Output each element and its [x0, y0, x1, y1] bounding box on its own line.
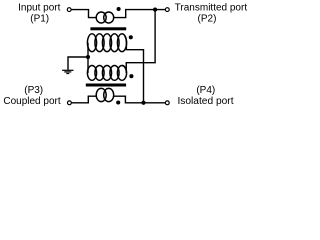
ground [62, 70, 73, 73]
svg-text:(P3): (P3) [24, 85, 43, 96]
port terminal P4 [165, 101, 169, 105]
T2 core bar [86, 84, 126, 87]
port terminal P3 [68, 101, 72, 105]
T1 phase dot secondary [129, 35, 133, 39]
inductor T1 primary (2 loops) [96, 12, 114, 23]
junction node at ground [86, 55, 90, 59]
port terminal P2 [165, 8, 169, 12]
T2 phase dot secondary [116, 100, 120, 104]
wire P1 lead with step down to T1 primary [71, 10, 96, 18]
wire T1 primary exit step up to top line and P2 [114, 10, 166, 18]
wire P3 lead with step up to T2 secondary [71, 96, 97, 103]
wire T2 secondary exit down to bottom line and P4 [114, 96, 165, 103]
svg-text:Coupled port: Coupled port [3, 96, 60, 107]
T1 secondary exit top arc [122, 34, 126, 43]
junction node at P2 branch [153, 8, 157, 12]
wire left vertical through ground junction (T1 sec left to T2 pri left) [87, 43, 89, 73]
wire ground branch [68, 57, 88, 70]
svg-text:Transmitted port: Transmitted port [175, 2, 248, 13]
svg-text:Input port: Input port [18, 2, 60, 13]
T2 primary exit top arc [122, 66, 126, 73]
svg-text:(P1): (P1) [30, 13, 49, 24]
inductor T2 primary (5 loops) [87, 66, 126, 81]
svg-text:(P4): (P4) [196, 85, 215, 96]
inductor T1 secondary (5 loops) [87, 34, 126, 52]
svg-text:Isolated port: Isolated port [177, 96, 233, 107]
inductor T2 secondary (2 loops) [96, 88, 114, 101]
T1 core bar [90, 27, 126, 30]
T1 phase dot primary [117, 7, 121, 11]
wire T1 secondary right end down to bottom line (V1) [126, 43, 143, 103]
wire V2 from P2 junction down and left to T2 primary right end [126, 10, 155, 73]
T2 phase dot primary [129, 74, 133, 78]
junction node on bottom line [141, 101, 145, 105]
port terminal P1 [67, 8, 71, 12]
svg-text:(P2): (P2) [198, 13, 217, 24]
